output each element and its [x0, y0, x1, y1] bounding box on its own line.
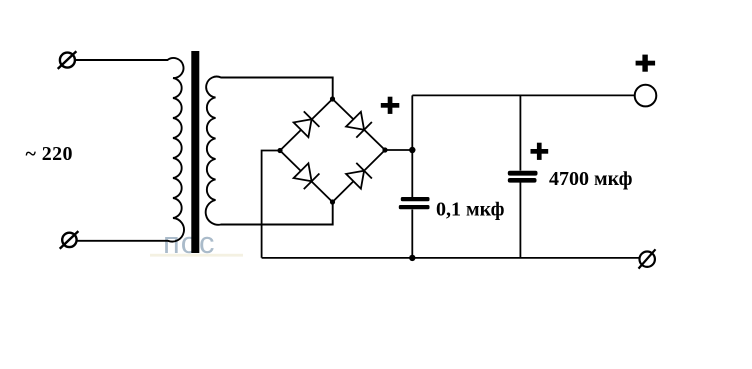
wire: +rail vertical (through C1): [411, 95, 413, 197]
watermark underline band: [150, 254, 243, 257]
wire: C2 branch vertical: [519, 95, 521, 170]
svg-text:0,1 мкф: 0,1 мкф: [436, 198, 505, 220]
node junction dot (rail x C1 top): [409, 147, 415, 153]
node: bridge left vertex: [277, 148, 282, 153]
diode D3 (lower-left arm): [294, 163, 320, 189]
node: bridge top vertex: [330, 96, 335, 101]
svg-text:~ 220: ~ 220: [26, 143, 73, 165]
bridge rectifier arms (diamond): [280, 99, 385, 202]
diode D1 (upper-left arm): [294, 111, 320, 137]
wire: bridge right vertex to +rail: [385, 149, 412, 151]
wire: bottom rail horizontal: [262, 257, 640, 259]
label + (DC output): [636, 55, 656, 72]
transformer T1 secondary winding + wires to bridge: [206, 77, 333, 225]
label + (bridge DC output): [381, 97, 400, 114]
node: bridge bottom vertex: [330, 199, 335, 204]
terminal X2 (AC input bottom, circle with slash): [60, 231, 79, 249]
node junction dot (bottom rail x C1): [409, 255, 415, 261]
terminal X3 (DC output +): [635, 85, 657, 107]
label + (C2 polarity): [531, 143, 549, 160]
terminal X4 (DC output -, circle with slash): [639, 249, 656, 268]
capacitor C1 plates (0,1 мкф): [399, 197, 430, 209]
svg-text:пос: пос: [163, 225, 216, 260]
diode D2 (upper-right arm): [346, 112, 372, 138]
node: bridge right vertex: [382, 147, 387, 152]
transformer T1 primary winding + wires: [76, 58, 185, 242]
diode D4 (lower-right arm): [346, 163, 372, 189]
wire: top +rail horizontal: [412, 94, 634, 96]
capacitor C2 plates (4700 мкф): [508, 171, 538, 183]
svg-text:4700 мкф: 4700 мкф: [549, 168, 633, 190]
terminal X1 (AC input top, circle with slash): [58, 51, 77, 69]
wire: bridge left vertex to minus rail: [262, 151, 280, 258]
transformer T1 core: [191, 51, 199, 253]
